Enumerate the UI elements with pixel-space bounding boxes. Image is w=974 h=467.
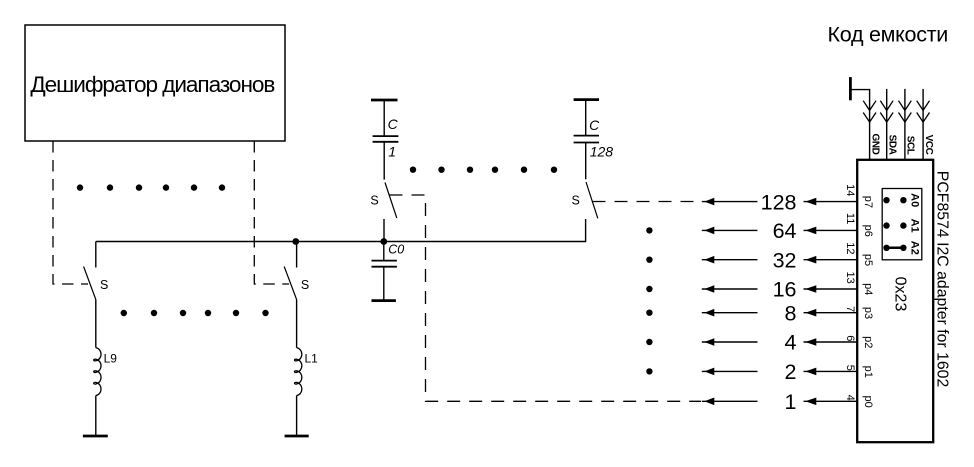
svg-text:p4: p4 bbox=[862, 283, 874, 295]
arrowhead pin 7 bbox=[805, 309, 816, 317]
svg-text:S: S bbox=[370, 194, 378, 208]
wire C1 top stem bbox=[383, 100, 385, 136]
svg-text:GND: GND bbox=[869, 133, 880, 154]
wire code-2 line bbox=[702, 370, 758, 372]
ground terminal (L9) bbox=[83, 435, 108, 438]
wire C1 switch to bus bbox=[383, 219, 385, 242]
wire C128 to switch bbox=[585, 143, 587, 180]
svg-text:64: 64 bbox=[773, 219, 797, 243]
svg-text:p2: p2 bbox=[862, 336, 874, 348]
switch S (C1) blade bbox=[385, 183, 397, 219]
power terminal (top left of chip) bbox=[850, 77, 869, 160]
svg-text:p7: p7 bbox=[862, 196, 874, 208]
svg-text:8: 8 bbox=[785, 301, 797, 325]
switch S (C128) blade bbox=[586, 182, 598, 218]
arrowhead pin 14 bbox=[805, 198, 816, 206]
jumper link A2 closed bbox=[887, 247, 904, 250]
wire pin 6 lead bbox=[804, 341, 858, 343]
arrowhead code-4 bbox=[704, 338, 714, 346]
arrowhead code-128 bbox=[704, 198, 714, 206]
wire pin 11 lead bbox=[804, 229, 858, 231]
svg-text:Код емкости: Код емкости bbox=[828, 23, 949, 47]
wire L1 bottom stem bbox=[296, 300, 298, 348]
node ellipsis dots row (inductor branches) bbox=[121, 310, 269, 316]
arrowhead code-32 bbox=[704, 256, 714, 264]
svg-text:PCF8574 I2C adapter for 1602: PCF8574 I2C adapter for 1602 bbox=[934, 171, 951, 388]
switch S (L9) blade bbox=[84, 267, 96, 300]
jumper block A0 A1 A2 box bbox=[882, 189, 922, 260]
wire L1 to ground bbox=[296, 396, 298, 436]
wire main horizontal bus bbox=[96, 241, 586, 243]
svg-text:C0: C0 bbox=[388, 242, 404, 256]
arrowhead code-2 bbox=[704, 368, 714, 376]
svg-text:p1: p1 bbox=[862, 366, 874, 378]
svg-text:1: 1 bbox=[388, 144, 396, 160]
svg-text:128: 128 bbox=[761, 190, 797, 214]
svg-text:A2: A2 bbox=[909, 241, 921, 255]
wire C128 switch to bus bbox=[585, 219, 587, 242]
wire L1 top stem bbox=[296, 242, 298, 268]
wire L9 to ground bbox=[95, 396, 97, 436]
node ellipsis dots row (decoder outputs) bbox=[77, 184, 225, 190]
wire C128 top stem bbox=[585, 100, 587, 136]
wire code-16 line bbox=[702, 288, 758, 290]
wire C1 to switch bbox=[383, 142, 385, 180]
arrowhead pin 13 bbox=[805, 285, 816, 293]
wire pin 4 lead bbox=[804, 400, 858, 402]
wire dashed control from decoder to S of L1 bbox=[254, 141, 289, 284]
wire L9 top stem bbox=[95, 242, 97, 268]
arrowhead pin 12 bbox=[805, 256, 816, 264]
svg-text:Дешифратор диапазонов: Дешифратор диапазонов bbox=[30, 72, 275, 97]
svg-text:5: 5 bbox=[844, 365, 856, 371]
wire code-1 line bbox=[702, 400, 758, 402]
arrowhead pin 6 bbox=[805, 338, 816, 346]
svg-text:12: 12 bbox=[844, 242, 856, 254]
jumper pads A0 bbox=[883, 197, 906, 203]
svg-text:16: 16 bbox=[773, 278, 797, 302]
svg-text:L9: L9 bbox=[104, 352, 118, 366]
wire pin 12 lead bbox=[804, 259, 858, 261]
arrowhead chevrons on SCL pin wire bbox=[899, 101, 912, 122]
svg-text:14: 14 bbox=[844, 184, 856, 196]
svg-text:C: C bbox=[388, 116, 399, 132]
wire dashed control C1 (code 1) bbox=[390, 195, 702, 401]
svg-text:C: C bbox=[589, 117, 600, 133]
inductor L1 bbox=[295, 348, 319, 396]
svg-text:7: 7 bbox=[844, 306, 856, 312]
arrowhead code-8 bbox=[704, 309, 714, 317]
svg-text:p3: p3 bbox=[862, 307, 874, 319]
wire VCC pin bbox=[922, 89, 924, 160]
wire L9 bottom stem bbox=[95, 300, 97, 348]
node junction L1 branch bbox=[292, 238, 299, 245]
wire pin 14 lead bbox=[804, 201, 858, 203]
wire SCL pin bbox=[904, 89, 906, 160]
svg-text:1: 1 bbox=[785, 390, 797, 414]
chip PCF8574 box U1 bbox=[857, 160, 933, 442]
svg-text:L1: L1 bbox=[305, 352, 319, 366]
terminal bar (C128 top) bbox=[574, 98, 599, 101]
svg-text:S: S bbox=[572, 194, 580, 208]
svg-text:4: 4 bbox=[785, 331, 797, 355]
capacitor C0 bbox=[372, 242, 405, 301]
wire pin 5 lead bbox=[804, 370, 858, 372]
svg-text:p0: p0 bbox=[862, 395, 874, 407]
arrowhead code-1 bbox=[704, 398, 714, 406]
wire pin 7 lead bbox=[804, 312, 858, 314]
wire code-64 line bbox=[702, 229, 758, 231]
wire code-4 line bbox=[702, 341, 758, 343]
svg-text:A0: A0 bbox=[909, 193, 921, 207]
svg-text:S: S bbox=[301, 278, 309, 292]
wire dashed control C128 (code 128) bbox=[593, 201, 702, 203]
capacitor C (value 128) bbox=[574, 117, 614, 159]
arrowhead chevrons on VCC pin wire bbox=[917, 101, 930, 122]
svg-text:0x23: 0x23 bbox=[891, 277, 908, 312]
arrowhead code-16 bbox=[704, 285, 714, 293]
switch S (L1) blade bbox=[284, 267, 296, 300]
decoder box U-DEC "Дешифратор диапазонов" bbox=[25, 25, 285, 141]
jumper pads A1 bbox=[883, 222, 906, 228]
svg-text:2: 2 bbox=[785, 360, 797, 384]
terminal bar (C1 top) bbox=[371, 99, 398, 102]
arrowhead code-64 bbox=[704, 227, 714, 235]
ground terminal (C0) bbox=[372, 299, 396, 302]
svg-text:p6: p6 bbox=[862, 225, 874, 237]
arrowhead chevrons on SDA pin wire bbox=[880, 101, 893, 122]
svg-text:VCC: VCC bbox=[923, 135, 934, 155]
node junction C0/C1 branch bbox=[380, 238, 387, 245]
svg-text:13: 13 bbox=[844, 272, 856, 284]
wire code-32 line bbox=[702, 259, 758, 261]
arrowhead pin 4 bbox=[805, 398, 816, 406]
svg-text:4: 4 bbox=[844, 395, 856, 401]
arrowhead pin 5 bbox=[805, 368, 816, 376]
svg-text:11: 11 bbox=[844, 213, 856, 224]
jumper pads A2 bbox=[883, 245, 906, 251]
wire pin 13 lead bbox=[804, 288, 858, 290]
svg-text:SDA: SDA bbox=[887, 135, 898, 155]
arrowhead chevrons on GND pin wire bbox=[863, 101, 876, 122]
svg-text:32: 32 bbox=[773, 248, 797, 272]
svg-text:A1: A1 bbox=[909, 219, 921, 233]
svg-text:6: 6 bbox=[844, 335, 856, 341]
svg-text:p5: p5 bbox=[862, 254, 874, 266]
wire code-8 line bbox=[702, 312, 758, 314]
wire SDA pin bbox=[886, 89, 888, 160]
svg-text:SCL: SCL bbox=[905, 136, 916, 155]
arrowhead pin 11 bbox=[805, 227, 816, 235]
svg-text:S: S bbox=[100, 278, 108, 292]
wire code-128 line bbox=[702, 201, 758, 203]
wire dashed control from decoder to S of L9 bbox=[53, 141, 88, 284]
svg-text:128: 128 bbox=[590, 144, 614, 160]
inductor L9 bbox=[94, 348, 118, 396]
ground terminal (L1) bbox=[285, 435, 309, 438]
capacitor C (value 1) bbox=[373, 116, 399, 160]
node ellipsis dots column (codes 64..2) bbox=[646, 227, 652, 374]
node ellipsis dots row (capacitor branches) bbox=[410, 167, 557, 173]
